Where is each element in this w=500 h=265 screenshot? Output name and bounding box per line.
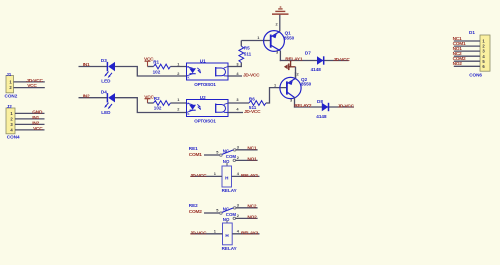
wire J1 pin1 [14, 81, 45, 83]
svg-text:RE1: RE1 [189, 146, 198, 151]
svg-text:RELAY2: RELAY2 [294, 103, 312, 109]
wire RELAY1 rail [280, 60, 349, 62]
wire U2 pin3 to R6 [228, 102, 249, 104]
svg-text:IN2: IN2 [32, 121, 39, 127]
svg-text:NC2: NC2 [247, 204, 256, 210]
wire VCC to R1 [148, 66, 154, 68]
relay RE2 contacts [220, 206, 237, 222]
wire NO2 [236, 217, 258, 219]
svg-text:CON6: CON6 [469, 72, 482, 77]
svg-text:102: 102 [153, 69, 161, 74]
svg-text:JD-VCC: JD-VCC [333, 57, 350, 63]
transistor Q1 8550 [264, 30, 295, 51]
relay RE2 coil [222, 220, 237, 251]
power VCC channel2 [144, 94, 154, 103]
svg-text:NO1: NO1 [247, 156, 257, 162]
svg-text:NC: NC [223, 206, 230, 211]
relay RE1 contacts [220, 148, 237, 164]
op-amp U2 OPTOISO1 [187, 95, 229, 124]
svg-text:IN2: IN2 [83, 93, 90, 99]
wire coil left JD-VCC [191, 175, 223, 177]
svg-text:511: 511 [244, 51, 252, 56]
wire CON6 pin5 [454, 60, 480, 62]
svg-text:K: K [188, 76, 190, 80]
svg-text:JD-VCC: JD-VCC [243, 73, 260, 79]
svg-text:NO1: NO1 [453, 46, 463, 52]
wire U1 pin4 [228, 75, 242, 77]
wire J2 pin1 [15, 112, 45, 114]
svg-text:R2: R2 [154, 96, 160, 101]
wire NC1 [236, 149, 258, 151]
svg-text:RE2: RE2 [189, 203, 198, 208]
svg-text:LED: LED [101, 110, 111, 115]
svg-text:OPTOISO1: OPTOISO1 [194, 119, 216, 124]
wire R1 to U1 pin1 [170, 66, 186, 68]
wire NO1 [236, 159, 258, 161]
wire J2 pin3 [15, 123, 45, 125]
svg-text:NO: NO [223, 217, 230, 222]
wire J2 pin2 [15, 118, 45, 120]
wire RELAY2 rail [294, 106, 354, 108]
wire COM1 [204, 154, 220, 156]
svg-text:D1: D1 [469, 30, 475, 35]
wire Q1 emitter up [279, 14, 281, 31]
svg-text:VCC: VCC [33, 126, 43, 132]
svg-text:CON4: CON4 [7, 135, 20, 140]
capacitor (polarized mark) [284, 64, 291, 71]
svg-text:NC1: NC1 [453, 36, 462, 42]
connector J2 CON4 [6, 104, 20, 140]
svg-text:NO2: NO2 [247, 214, 257, 220]
wire Q2 collector down [294, 98, 296, 108]
svg-text:GND: GND [32, 110, 43, 116]
svg-text:D4: D4 [101, 90, 107, 95]
svg-text:RELAY2: RELAY2 [241, 230, 259, 236]
svg-text:4148: 4148 [311, 67, 322, 72]
svg-text:IN1: IN1 [83, 62, 90, 68]
wire CON6 pin3 [454, 50, 480, 52]
svg-text:VCC: VCC [27, 83, 37, 89]
relay RE1 [189, 146, 202, 158]
connector J1 CON2 [5, 72, 18, 99]
wire coil right RELAY1 [232, 175, 260, 177]
LED D3 [101, 58, 115, 84]
wire D4 to corner [115, 98, 187, 113]
wire IN2 to D4 [79, 97, 108, 99]
relay RE1 coil [222, 163, 237, 193]
svg-text:R6: R6 [249, 97, 255, 102]
svg-text:NC: NC [223, 148, 230, 153]
resistor R1 102 [153, 59, 171, 74]
svg-text:4148: 4148 [316, 114, 327, 119]
wire D3 to corner [115, 67, 187, 77]
svg-text:511: 511 [249, 105, 257, 110]
resistor R6 511 [249, 97, 266, 110]
wire R5 to Q1 base [241, 40, 270, 42]
wire Q1 collector down [279, 51, 281, 61]
wire coil left JD-VCC [191, 233, 223, 235]
svg-text:JD-VCC: JD-VCC [190, 173, 207, 179]
svg-text:COM1: COM1 [189, 152, 202, 158]
wire U2 pin4 [228, 112, 243, 114]
wire CON6 pin6 [454, 65, 480, 67]
svg-text:COM2: COM2 [453, 56, 466, 62]
wire CON6 pin2 [454, 45, 480, 47]
wire coil right RELAY2 [232, 233, 259, 235]
svg-text:D7: D7 [305, 50, 311, 55]
relay RE2 [189, 203, 202, 215]
svg-text:COM2: COM2 [189, 209, 202, 215]
svg-text:R1: R1 [153, 59, 159, 64]
wire CON6 pin1 [454, 40, 480, 42]
resistor R2 102 [154, 96, 171, 110]
wire R6 to Q2 base [266, 88, 287, 103]
svg-text:RELAY: RELAY [222, 188, 237, 193]
svg-text:LED: LED [101, 79, 111, 84]
svg-text:K: K [188, 112, 190, 116]
wire J2 pin4 [15, 129, 45, 131]
transistor Q2 8550 [280, 77, 312, 98]
svg-text:RELAY1: RELAY1 [285, 56, 303, 62]
svg-text:JD-VCC: JD-VCC [244, 109, 261, 115]
wire Q2 emitter up [295, 72, 297, 78]
svg-text:8550: 8550 [284, 35, 295, 40]
ground [272, 7, 289, 14]
wire junction branch to Q2 emitter [288, 59, 295, 78]
LED D4 [101, 90, 115, 115]
svg-text:D3: D3 [101, 58, 107, 63]
wire IN1 to D3 [79, 66, 108, 68]
svg-text:OPTOISO1: OPTOISO1 [194, 82, 216, 87]
svg-text:RELAY: RELAY [222, 246, 237, 251]
power VCC channel1 [144, 57, 154, 67]
svg-text:IN1: IN1 [32, 115, 39, 121]
wire CON6 pin4 [454, 55, 480, 57]
svg-text:J1: J1 [6, 72, 12, 77]
connector D1 CON6 [469, 30, 490, 77]
svg-text:102: 102 [154, 105, 162, 110]
svg-text:A: A [188, 65, 190, 69]
wire R2 to U2 pin1 [170, 102, 186, 104]
op-amp U1 OPTOISO1 [187, 58, 229, 87]
svg-text:NO2: NO2 [453, 61, 463, 67]
svg-text:NC1: NC1 [247, 146, 256, 152]
diode D7 4148 [305, 50, 324, 72]
wire J1 pin2 [14, 87, 45, 89]
svg-text:RELAY1: RELAY1 [241, 173, 259, 179]
svg-text:JD-VCC: JD-VCC [190, 230, 207, 236]
svg-text:JD-VCC: JD-VCC [338, 104, 355, 110]
wire COM2 [204, 212, 220, 214]
svg-text:J2: J2 [7, 104, 13, 109]
wire U1 pin3 [228, 66, 242, 68]
svg-text:NO: NO [223, 159, 230, 164]
wire NC2 [236, 207, 258, 209]
svg-text:CON2: CON2 [5, 94, 18, 99]
svg-text:R5: R5 [244, 46, 250, 51]
resistor R5 511 [239, 41, 252, 67]
svg-text:8550: 8550 [301, 81, 312, 86]
diode D8 4148 [316, 99, 328, 119]
wire VCC to R2 [148, 102, 154, 104]
svg-text:A: A [188, 101, 190, 105]
